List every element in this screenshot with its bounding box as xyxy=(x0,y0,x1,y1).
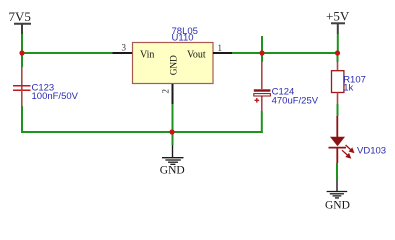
svg-text:1k: 1k xyxy=(343,82,353,93)
wire +5V port to node C xyxy=(337,34,339,53)
wire pin 2 to node D xyxy=(172,104,174,132)
wire node D to C124 corner xyxy=(172,131,263,133)
svg-text:100nF/50V: 100nF/50V xyxy=(32,91,79,102)
svg-text:1: 1 xyxy=(218,43,223,53)
wire node D to ground xyxy=(172,132,174,145)
regulator U110 body xyxy=(133,43,214,84)
svg-text:GND: GND xyxy=(169,55,179,75)
wire corner up to C124 xyxy=(261,111,263,133)
node B junction xyxy=(259,50,264,55)
wire R107 to VD103 xyxy=(337,104,339,116)
ground symbol right xyxy=(327,179,348,198)
LED VD103 xyxy=(329,116,354,163)
pin 1 of U110 xyxy=(213,43,232,53)
svg-text:+5V: +5V xyxy=(326,8,350,23)
power port +5V xyxy=(326,8,350,34)
svg-text:GND: GND xyxy=(325,200,350,212)
capacitor C123 xyxy=(13,67,31,106)
power port 7V5 xyxy=(9,9,32,34)
wire node A to pin 3 xyxy=(22,52,113,54)
ground symbol below regulator xyxy=(162,145,184,164)
node C junction xyxy=(335,50,340,55)
pin 2 of U110 xyxy=(161,84,173,104)
svg-text:470uF/25V: 470uF/25V xyxy=(272,95,319,106)
pin 3 of U110 xyxy=(113,42,133,53)
wire node A down to C123 xyxy=(21,53,23,67)
wire 7V5 port to node A xyxy=(21,34,23,53)
svg-text:2: 2 xyxy=(161,89,171,94)
node A junction xyxy=(19,50,24,55)
svg-text:Vout: Vout xyxy=(187,50,206,61)
svg-text:VD103: VD103 xyxy=(357,146,386,157)
wire pin 1 to node B xyxy=(232,52,262,54)
wire node B down to C124 xyxy=(261,53,263,62)
wire VD103 to ground xyxy=(336,163,338,179)
svg-text:GND: GND xyxy=(160,165,185,177)
capacitor C124 xyxy=(254,62,271,111)
svg-text:U110: U110 xyxy=(172,32,194,43)
svg-text:Vin: Vin xyxy=(140,50,154,61)
resistor R107 xyxy=(332,62,344,104)
node D junction xyxy=(169,129,174,134)
svg-text:7V5: 7V5 xyxy=(9,9,31,24)
svg-text:3: 3 xyxy=(122,42,127,52)
wire bottom left to node D xyxy=(21,131,172,133)
wire stub above node B xyxy=(261,36,263,53)
wire node B to node C xyxy=(262,52,338,54)
wire node C down to R107 xyxy=(337,53,339,62)
wire C123 down to corner xyxy=(21,106,23,133)
